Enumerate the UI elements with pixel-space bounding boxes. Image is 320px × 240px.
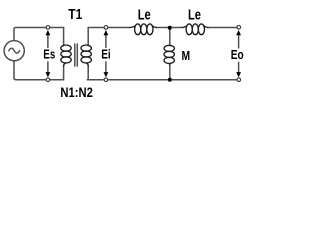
svg-text:Ei: Ei <box>101 46 110 61</box>
svg-text:Es: Es <box>43 47 55 62</box>
svg-text:M: M <box>182 48 191 63</box>
svg-text:Eo: Eo <box>231 47 244 62</box>
svg-text:T1: T1 <box>68 7 82 23</box>
svg-text:Le: Le <box>138 7 151 23</box>
svg-text:N1:N2: N1:N2 <box>60 84 93 100</box>
svg-text:Le: Le <box>188 7 201 23</box>
